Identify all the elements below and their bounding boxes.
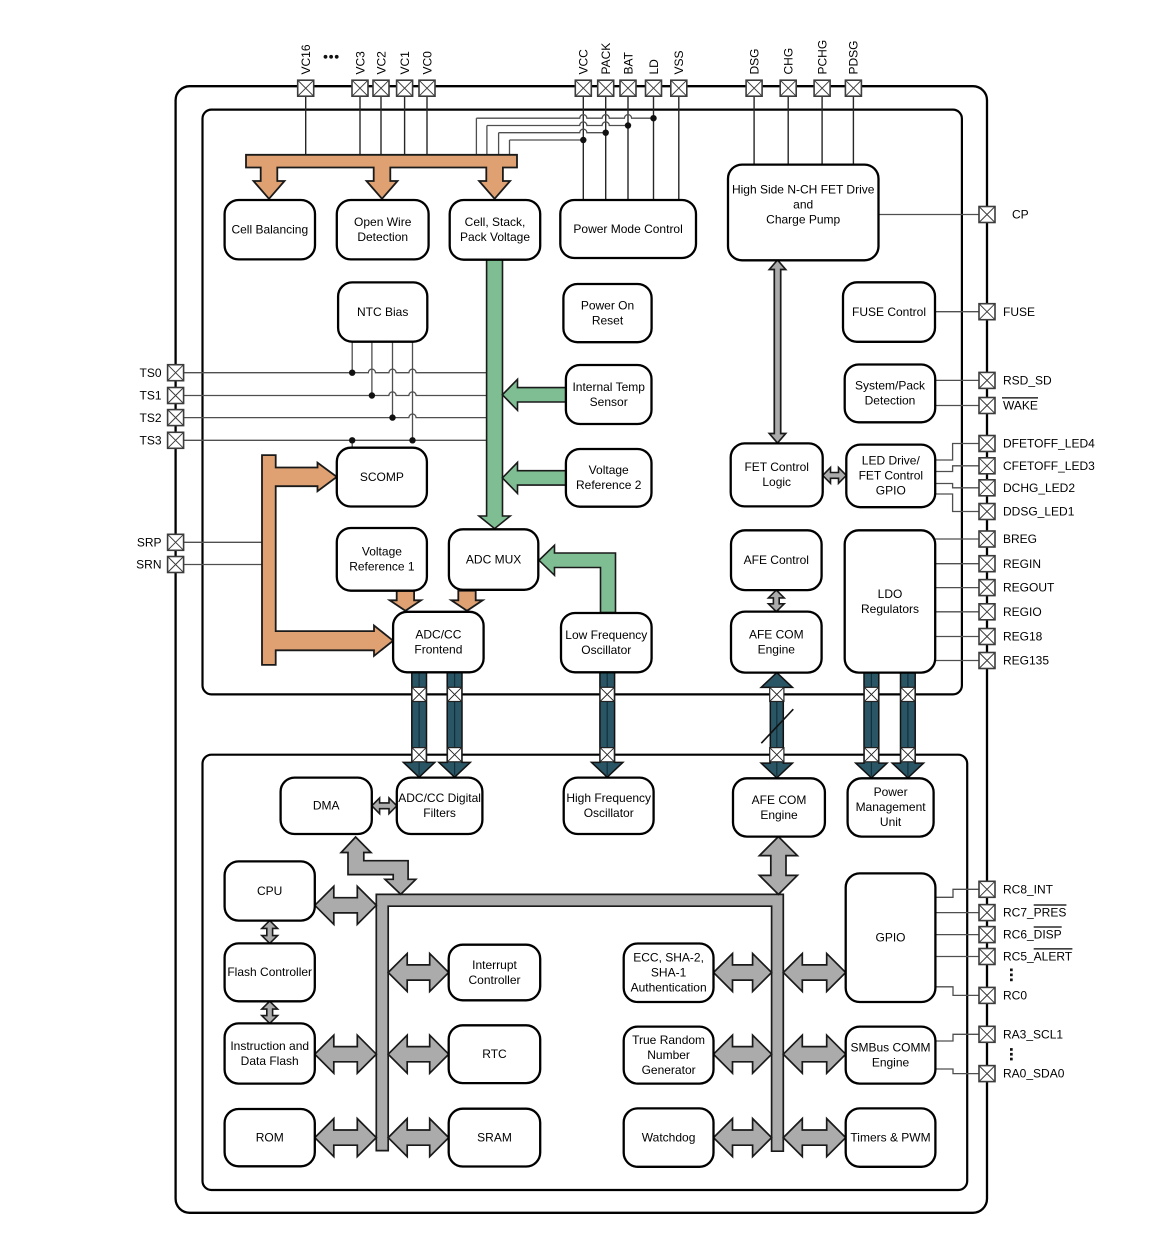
connector ADC/CC Frontend to Digital Filters left (teal) bbox=[403, 672, 434, 777]
svg-text:ADC MUX: ADC MUX bbox=[466, 552, 521, 566]
svg-text:RC5_ALERT: RC5_ALERT bbox=[1003, 950, 1073, 964]
block ADC/CC Digital Filters bbox=[397, 778, 483, 834]
svg-text:Cell Balancing: Cell Balancing bbox=[231, 223, 308, 237]
pin LD bbox=[646, 59, 662, 96]
pin RSD_SD bbox=[979, 372, 1052, 388]
svg-text:Controller: Controller bbox=[468, 973, 520, 987]
block Power Management Unit bbox=[848, 778, 934, 836]
wire TS3 to ADC mux bus bbox=[183, 439, 487, 441]
svg-text:Power Mode Control: Power Mode Control bbox=[573, 222, 682, 236]
svg-text:CPU: CPU bbox=[257, 884, 282, 898]
block Cell Stack Pack Voltage bbox=[450, 200, 541, 260]
svg-text:ADC/CC Digital: ADC/CC Digital bbox=[398, 791, 481, 805]
svg-text:Reference 2: Reference 2 bbox=[576, 478, 642, 492]
wire LD to Power Mode Control bbox=[653, 96, 655, 200]
wire LDO Regulators to REG18 bbox=[935, 636, 979, 638]
pin SRN bbox=[136, 557, 183, 573]
svg-text:CHG: CHG bbox=[782, 48, 796, 75]
svg-text:PDSG: PDSG bbox=[847, 40, 861, 74]
wire TS3 to SCOMP bbox=[351, 440, 353, 448]
junction dot on VCC line bbox=[580, 137, 586, 143]
svg-text:High Frequency: High Frequency bbox=[566, 791, 651, 805]
bottom digital section border bbox=[203, 755, 968, 1190]
svg-text:RC0: RC0 bbox=[1003, 989, 1027, 1003]
svg-text:Regulators: Regulators bbox=[861, 602, 919, 616]
arrow Voltage Reference 1 to ADC/CC Frontend (orange) bbox=[390, 591, 421, 611]
arrow DMA to ADC/CC Digital Filters (gray) bbox=[372, 798, 397, 814]
block AFE COM Engine digital bbox=[733, 778, 825, 836]
svg-text:RC8_INT: RC8_INT bbox=[1003, 882, 1054, 896]
arrow Voltage Reference 2 to ADC bus (green) bbox=[502, 462, 566, 493]
block FUSE Control bbox=[843, 282, 935, 342]
pin SRP bbox=[137, 534, 184, 550]
pin CP bbox=[979, 207, 1029, 223]
wire VC0 to cell bus bbox=[426, 96, 428, 155]
svg-text:PACK: PACK bbox=[599, 43, 613, 75]
arrow bus to Interrupt Controller (gray) bbox=[388, 954, 449, 992]
svg-text:FUSE Control: FUSE Control bbox=[852, 305, 926, 319]
junction dot on LD line bbox=[650, 115, 656, 121]
arrow CPU to Flash Controller (gray) bbox=[262, 921, 278, 944]
svg-text:Interrupt: Interrupt bbox=[472, 958, 517, 972]
block Internal Temp Sensor bbox=[566, 365, 652, 424]
svg-text:Reset: Reset bbox=[592, 313, 624, 327]
pin RA0_SDA0 bbox=[979, 1066, 1065, 1082]
svg-text:LD: LD bbox=[647, 59, 661, 75]
svg-text:DFETOFF_LED4: DFETOFF_LED4 bbox=[1003, 437, 1095, 451]
svg-text:PCHG: PCHG bbox=[815, 40, 829, 75]
wire LED drive to DCHG_LED2 bbox=[935, 484, 979, 488]
svg-text:Unit: Unit bbox=[880, 815, 902, 829]
svg-text:REGIO: REGIO bbox=[1003, 605, 1042, 619]
svg-text:VC1: VC1 bbox=[398, 51, 412, 75]
pin VC16 bbox=[298, 44, 314, 96]
junction dot TS3 bbox=[409, 437, 415, 443]
wire DSG to FET drive bbox=[753, 96, 755, 164]
svg-text:BAT: BAT bbox=[621, 51, 635, 74]
arrow FET drive to FET Control Logic (gray) bbox=[769, 260, 785, 443]
block CPU bbox=[225, 861, 315, 920]
block Voltage Reference 1 bbox=[337, 528, 427, 591]
pin PDSG bbox=[845, 40, 861, 96]
connector LDO Regulators to Power Management left (teal) bbox=[856, 673, 887, 778]
coulomb counter bus with arrows to SCOMP and ADC/CC Frontend (orange) bbox=[262, 455, 393, 665]
svg-text:FUSE: FUSE bbox=[1003, 305, 1035, 319]
svg-text:SRP: SRP bbox=[137, 536, 162, 550]
svg-text:High Side N-CH FET Drive: High Side N-CH FET Drive bbox=[732, 182, 875, 196]
svg-text:RC7_PRES: RC7_PRES bbox=[1003, 906, 1066, 920]
arrow Internal Temp Sensor to ADC bus (green) bbox=[502, 379, 566, 410]
wire cell bus tap to VCC bbox=[510, 140, 584, 155]
wire VCC to Power Mode Control bbox=[582, 96, 584, 200]
block DMA bbox=[281, 778, 372, 834]
svg-text:Data Flash: Data Flash bbox=[241, 1054, 299, 1068]
wire GPIO to RC0 bbox=[935, 987, 979, 996]
svg-text:GPIO: GPIO bbox=[875, 931, 905, 945]
wire VC1 to cell bus bbox=[404, 96, 406, 155]
pin DDSG_LED1 bbox=[979, 504, 1075, 520]
svg-text:Detection: Detection bbox=[357, 230, 408, 244]
arrow bus to GPIO (gray) bbox=[783, 954, 845, 992]
CPU system bus (gray) bbox=[376, 894, 783, 1151]
block System Pack Detection bbox=[845, 365, 936, 423]
wire GPIO to RC7_PRES bbox=[935, 912, 979, 914]
svg-text:Power On: Power On bbox=[581, 298, 634, 312]
wire NTC bias to TS2 bbox=[392, 342, 394, 418]
pin TS3 bbox=[139, 432, 183, 448]
svg-text:RA3_SCL1: RA3_SCL1 bbox=[1003, 1027, 1063, 1041]
arrow AFE Control to AFE COM Engine (gray) bbox=[768, 590, 784, 612]
svg-text:SRN: SRN bbox=[136, 558, 161, 572]
junction dot on PACK line bbox=[603, 130, 609, 136]
svg-text:Watchdog: Watchdog bbox=[642, 1130, 696, 1144]
block FET Control Logic bbox=[731, 443, 823, 506]
svg-text:VC0: VC0 bbox=[420, 51, 434, 75]
wire cell bus tap to LD bbox=[476, 115, 653, 155]
pin REGIN bbox=[979, 556, 1041, 572]
wire VC3 to cell bus bbox=[359, 96, 361, 155]
svg-text:REG18: REG18 bbox=[1003, 630, 1043, 644]
svg-text:VC16: VC16 bbox=[299, 44, 313, 74]
pin REG18 bbox=[979, 629, 1043, 645]
block AFE COM Engine analog bbox=[731, 612, 822, 673]
arrow FET Control Logic to LED Drive (gray) bbox=[823, 468, 847, 484]
wire VSS to Power Mode Control bbox=[678, 96, 680, 200]
svg-text:Cell, Stack,: Cell, Stack, bbox=[465, 215, 526, 229]
pin VC0 bbox=[419, 51, 435, 96]
pin RC0 bbox=[979, 987, 1027, 1003]
svg-text:VSS: VSS bbox=[672, 50, 686, 74]
svg-text:AFE COM: AFE COM bbox=[752, 793, 807, 807]
block Watchdog bbox=[624, 1108, 714, 1166]
svg-text:CFETOFF_LED3: CFETOFF_LED3 bbox=[1003, 459, 1095, 473]
svg-text:TS1: TS1 bbox=[139, 389, 161, 403]
wire System/Pack Detection to WAKE bbox=[935, 405, 979, 407]
wire FET drive to CP bbox=[879, 214, 980, 216]
svg-text:True Random: True Random bbox=[632, 1033, 705, 1047]
svg-text:Power: Power bbox=[874, 785, 908, 799]
svg-text:Frontend: Frontend bbox=[414, 642, 462, 656]
svg-text:VC3: VC3 bbox=[353, 51, 367, 75]
svg-text:Number: Number bbox=[647, 1048, 690, 1062]
svg-text:LDO: LDO bbox=[878, 587, 903, 601]
wire SMBus to RA3_SCL1 bbox=[935, 1034, 979, 1041]
wire NTC bias to TS0 bbox=[351, 342, 353, 373]
svg-text:Reference 1: Reference 1 bbox=[349, 560, 415, 574]
svg-text:AFE COM: AFE COM bbox=[749, 627, 804, 641]
block Power On Reset bbox=[563, 284, 651, 342]
wire GPIO to RC5_ALERT bbox=[935, 956, 979, 958]
svg-text:RC6_DISP: RC6_DISP bbox=[1003, 928, 1062, 942]
top analog section border bbox=[203, 110, 962, 695]
pin PCHG bbox=[814, 40, 830, 96]
arrow Cell Stack Pack Voltage to ADC MUX (green) bbox=[479, 260, 510, 529]
svg-text:SRAM: SRAM bbox=[477, 1130, 512, 1144]
connector ADC/CC Frontend to Digital Filters right (teal) bbox=[439, 672, 470, 777]
svg-text:SMBus COMM: SMBus COMM bbox=[850, 1040, 930, 1054]
wire SRP to coulomb counter bus bbox=[184, 541, 263, 543]
pin TS2 bbox=[139, 410, 183, 426]
wire GPIO to RC8_INT bbox=[935, 889, 979, 897]
block Open Wire Detection bbox=[337, 200, 429, 259]
junction dot on BAT line bbox=[625, 122, 631, 128]
cell voltage input bus (orange) bbox=[246, 155, 517, 199]
wire TS2 to ADC mux bus bbox=[183, 414, 487, 418]
svg-text:RTC: RTC bbox=[482, 1047, 507, 1061]
pin BAT bbox=[620, 51, 636, 96]
wire PACK to Power Mode Control bbox=[605, 96, 607, 200]
wire VC2 to cell bus bbox=[380, 96, 382, 155]
svg-text:REGOUT: REGOUT bbox=[1003, 581, 1055, 595]
pin WAKE bbox=[979, 398, 1038, 414]
pin TS1 bbox=[139, 388, 183, 404]
block Power Mode Control bbox=[560, 200, 696, 258]
pin RA3_SCL1 bbox=[979, 1026, 1063, 1042]
svg-text:RA0_SDA0: RA0_SDA0 bbox=[1003, 1067, 1065, 1081]
pin DSG bbox=[746, 48, 762, 96]
block ECC SHA Authentication bbox=[624, 944, 714, 1003]
arrow Watchdog to bus (gray) bbox=[714, 1119, 772, 1157]
svg-text:Authentication: Authentication bbox=[631, 981, 707, 995]
svg-text:GPIO: GPIO bbox=[876, 484, 906, 498]
arrow ECC Authentication to bus (gray) bbox=[714, 954, 772, 992]
pin CFETOFF_LED3 bbox=[979, 458, 1095, 474]
block ROM bbox=[225, 1109, 315, 1166]
svg-text:Management: Management bbox=[856, 800, 927, 814]
svg-text:Detection: Detection bbox=[865, 394, 916, 408]
junction dot TS1 bbox=[369, 392, 375, 398]
block Low Frequency Oscillator bbox=[561, 613, 652, 672]
svg-text:DMA: DMA bbox=[313, 799, 340, 813]
svg-text:VC2: VC2 bbox=[374, 51, 388, 75]
pin VC2 bbox=[373, 51, 389, 96]
junction dot TS3 SCOMP tap bbox=[349, 437, 355, 443]
block High Side FET Drive and Charge Pump bbox=[728, 165, 879, 261]
block LDO Regulators bbox=[845, 530, 936, 672]
arrow DMA to bus (gray, jogged) bbox=[341, 837, 416, 894]
svg-text:FET Control: FET Control bbox=[859, 469, 923, 483]
svg-text:SCOMP: SCOMP bbox=[360, 470, 404, 484]
svg-text:LED Drive/: LED Drive/ bbox=[862, 454, 921, 468]
svg-text:CP: CP bbox=[1012, 208, 1029, 222]
svg-text:Filters: Filters bbox=[423, 806, 456, 820]
svg-text:Voltage: Voltage bbox=[362, 545, 402, 559]
svg-text:Low Frequency: Low Frequency bbox=[565, 628, 647, 642]
svg-text:TS0: TS0 bbox=[139, 366, 161, 380]
block LED Drive FET Control GPIO bbox=[846, 445, 935, 508]
wire LED drive to DDSG_LED1 bbox=[935, 494, 979, 512]
block High Frequency Oscillator bbox=[564, 778, 654, 834]
svg-text:Generator: Generator bbox=[642, 1063, 696, 1077]
svg-text:Oscillator: Oscillator bbox=[581, 643, 631, 657]
svg-text:ADC/CC: ADC/CC bbox=[415, 627, 461, 641]
block Flash Controller bbox=[225, 943, 315, 1001]
svg-text:WAKE: WAKE bbox=[1003, 399, 1038, 413]
wire System/Pack Detection to RSD_SD bbox=[935, 379, 979, 381]
ellipsis RA pins bbox=[1010, 1048, 1013, 1060]
pin RC8_INT bbox=[979, 881, 1054, 897]
block SMBus COMM Engine bbox=[846, 1027, 936, 1084]
svg-text:VCC: VCC bbox=[577, 49, 591, 75]
svg-text:DDSG_LED1: DDSG_LED1 bbox=[1003, 505, 1075, 519]
connector AFE COM Engine analog to digital (teal) bbox=[761, 673, 793, 778]
svg-text:Voltage: Voltage bbox=[589, 463, 629, 477]
wire CHG to FET drive bbox=[787, 96, 789, 164]
wire LDO Regulators to BREG bbox=[935, 538, 979, 540]
wire cell bus tap to BAT bbox=[487, 122, 628, 155]
arrow AFE COM Engine to bus (gray) bbox=[759, 837, 797, 895]
svg-text:Charge Pump: Charge Pump bbox=[766, 212, 840, 226]
pin RC6_DISP bbox=[979, 927, 1062, 943]
pin REGOUT bbox=[979, 580, 1055, 596]
svg-text:Sensor: Sensor bbox=[590, 395, 628, 409]
pin VSS bbox=[671, 50, 687, 96]
wire PDSG to FET drive bbox=[852, 96, 854, 164]
svg-text:BREG: BREG bbox=[1003, 532, 1037, 546]
pin DFETOFF_LED4 bbox=[979, 436, 1095, 452]
block NTC Bias bbox=[338, 282, 427, 341]
block Interrupt Controller bbox=[449, 945, 541, 1001]
svg-text:Logic: Logic bbox=[762, 475, 791, 489]
block AFE Control bbox=[731, 530, 822, 590]
junction dot TS2 bbox=[389, 414, 395, 420]
svg-text:Open Wire: Open Wire bbox=[354, 215, 412, 229]
svg-text:Oscillator: Oscillator bbox=[584, 806, 634, 820]
svg-text:TS2: TS2 bbox=[139, 411, 161, 425]
connector Low Frequency Osc to High Frequency Osc (teal) bbox=[592, 672, 623, 777]
arrow ROM to bus (gray) bbox=[315, 1119, 377, 1157]
svg-text:System/Pack: System/Pack bbox=[855, 379, 926, 393]
svg-text:Flash Controller: Flash Controller bbox=[227, 965, 312, 979]
connector LDO Regulators to Power Management right (teal) bbox=[892, 673, 923, 778]
svg-text:FET Control: FET Control bbox=[744, 460, 808, 474]
svg-text:Instruction and: Instruction and bbox=[230, 1039, 309, 1053]
pin CHG bbox=[780, 48, 796, 96]
wire LED drive to DFETOFF_LED4 bbox=[935, 444, 979, 461]
pin PACK bbox=[598, 43, 614, 96]
junction dot TS0 bbox=[349, 370, 355, 376]
ellipsis RC pins bbox=[1010, 969, 1013, 982]
pin RC5_ALERT bbox=[979, 949, 1073, 965]
pin RC7_PRES bbox=[979, 905, 1066, 921]
wire SRN to coulomb counter bus bbox=[184, 564, 263, 566]
arrow True Random Number Generator to bus (gray) bbox=[714, 1035, 772, 1073]
svg-text:RSD_SD: RSD_SD bbox=[1003, 374, 1052, 388]
arrow ADC MUX to ADC/CC Frontend (orange) bbox=[451, 591, 482, 611]
pin TS0 bbox=[139, 365, 183, 381]
block Cell Balancing bbox=[225, 200, 315, 259]
wire cell bus tap to PACK bbox=[499, 129, 606, 155]
wire VC16 to cell bus bbox=[305, 96, 307, 155]
wire FUSE Control to FUSE bbox=[935, 311, 980, 313]
block RTC bbox=[449, 1025, 541, 1083]
pin VC1 bbox=[397, 51, 413, 96]
arrow bus to Timers PWM (gray) bbox=[783, 1119, 845, 1157]
pin REGIO bbox=[979, 604, 1042, 620]
svg-text:and: and bbox=[793, 197, 813, 211]
svg-text:Timers & PWM: Timers & PWM bbox=[850, 1130, 930, 1144]
svg-text:Engine: Engine bbox=[758, 642, 796, 656]
block Instruction and Data Flash bbox=[225, 1023, 315, 1083]
arrow bus to RTC (gray) bbox=[388, 1035, 449, 1073]
pin BREG bbox=[979, 531, 1037, 547]
wire NTC bias to TS3 bbox=[412, 342, 414, 441]
svg-text:ECC, SHA-2,: ECC, SHA-2, bbox=[633, 951, 704, 965]
block SRAM bbox=[449, 1109, 541, 1167]
arrow bus to SMBus COMM Engine (gray) bbox=[783, 1035, 845, 1073]
svg-text:TS3: TS3 bbox=[139, 434, 161, 448]
arrow Flash Controller to Instruction Flash (gray) bbox=[262, 1001, 278, 1023]
block True Random Number Generator bbox=[624, 1027, 714, 1084]
block GPIO bbox=[846, 873, 936, 1002]
wire TS1 to ADC mux bus bbox=[183, 392, 487, 396]
pin VC3 bbox=[352, 51, 368, 96]
arrow Low Frequency Oscillator to ADC MUX (green) bbox=[539, 545, 616, 612]
svg-text:SHA-1: SHA-1 bbox=[651, 966, 687, 980]
svg-text:ROM: ROM bbox=[256, 1131, 284, 1145]
arrow Instruction Flash to bus (gray) bbox=[315, 1035, 377, 1073]
pin REG135 bbox=[979, 653, 1049, 669]
block ADC MUX bbox=[449, 529, 538, 590]
svg-text:NTC Bias: NTC Bias bbox=[357, 305, 408, 319]
block SCOMP bbox=[337, 448, 427, 507]
block ADC/CC Frontend bbox=[393, 612, 484, 673]
wire GPIO to RC6_DISP bbox=[935, 934, 979, 936]
svg-text:DCHG_LED2: DCHG_LED2 bbox=[1003, 481, 1075, 495]
outer device boundary bbox=[176, 86, 987, 1213]
wire PCHG to FET drive bbox=[821, 96, 823, 164]
pin VCC bbox=[575, 49, 591, 96]
wire SMBus to RA0_SDA0 bbox=[935, 1069, 979, 1074]
wire LDO Regulators to REGOUT bbox=[935, 587, 979, 589]
wire LED drive to CFETOFF_LED3 bbox=[935, 466, 979, 472]
wire LDO Regulators to REG135 bbox=[935, 660, 979, 662]
arrow bus to SRAM (gray) bbox=[388, 1119, 449, 1157]
svg-text:Internal Temp: Internal Temp bbox=[572, 380, 645, 394]
svg-text:DSG: DSG bbox=[747, 48, 761, 74]
wire LDO Regulators to REGIO bbox=[935, 611, 979, 613]
pin DCHG_LED2 bbox=[979, 480, 1075, 496]
wire NTC bias to TS1 bbox=[371, 342, 373, 396]
block Timers and PWM bbox=[846, 1108, 936, 1166]
ellipsis between VC16 and VC3 bbox=[324, 55, 339, 59]
arrow CPU to bus (gray) bbox=[315, 886, 377, 924]
svg-text:Engine: Engine bbox=[760, 808, 798, 822]
block Voltage Reference 2 bbox=[566, 449, 652, 507]
pin FUSE bbox=[979, 304, 1035, 320]
wire BAT to Power Mode Control bbox=[627, 96, 629, 200]
wire TS0 to ADC mux bus bbox=[183, 369, 487, 373]
svg-text:Engine: Engine bbox=[872, 1055, 910, 1069]
wire LDO Regulators to REGIN bbox=[935, 563, 979, 565]
svg-text:REG135: REG135 bbox=[1003, 654, 1049, 668]
svg-text:AFE Control: AFE Control bbox=[744, 553, 809, 567]
svg-text:Pack Voltage: Pack Voltage bbox=[460, 230, 530, 244]
svg-text:REGIN: REGIN bbox=[1003, 557, 1041, 571]
